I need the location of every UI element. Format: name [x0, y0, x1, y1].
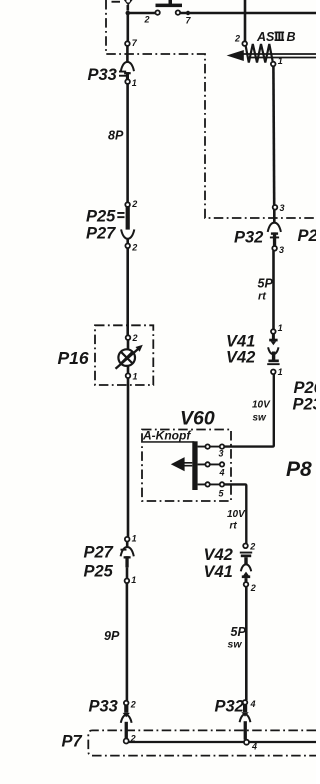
wire bus inside P7 — [129, 741, 316, 743]
svg-text:sw: sw — [228, 639, 243, 651]
wire contact 3 to upper column — [224, 374, 274, 447]
P32 pin — [270, 232, 279, 246]
connector P25 pin 2 — [125, 202, 130, 207]
wire — [272, 66, 275, 205]
P16 dashed box — [95, 325, 153, 385]
svg-text:A-Knopf: A-Knopf — [142, 429, 191, 443]
svg-text:V42: V42 — [204, 546, 233, 564]
wire — [272, 251, 275, 330]
V60 dashed box — [142, 430, 231, 502]
svg-text:1: 1 — [278, 323, 283, 333]
svg-text:4: 4 — [250, 699, 256, 709]
V41 pin — [269, 334, 277, 346]
P32 pin and socket — [241, 705, 248, 717]
svg-text:P26: P26 — [294, 379, 317, 397]
svg-text:B: B — [287, 30, 296, 44]
svg-text:5P: 5P — [231, 625, 247, 639]
wire — [126, 84, 129, 202]
svg-text:P16: P16 — [58, 348, 89, 368]
svg-text:1: 1 — [131, 575, 136, 585]
svg-text:P7: P7 — [62, 733, 83, 751]
wire — [126, 239, 129, 244]
svg-text:P32: P32 — [215, 698, 244, 716]
svg-text:1: 1 — [278, 367, 283, 377]
wire — [127, 340, 130, 349]
P7 dashed box — [88, 730, 316, 755]
wire — [244, 0, 247, 41]
P27 socket cup — [121, 547, 134, 556]
wire — [130, 12, 156, 15]
P32 socket cup — [268, 223, 281, 232]
svg-text:5P: 5P — [258, 277, 274, 291]
P33 pin and socket — [123, 705, 130, 717]
V42 plug — [240, 552, 252, 566]
node junction 2 — [126, 11, 131, 16]
svg-text:2: 2 — [132, 333, 138, 343]
pin 2 — [244, 582, 249, 587]
svg-text:8P: 8P — [108, 129, 124, 143]
svg-text:2: 2 — [131, 243, 137, 253]
wire pin into P7 — [125, 722, 128, 739]
svg-text:2: 2 — [250, 583, 256, 593]
svg-text:4: 4 — [251, 742, 257, 752]
P33 pin — [124, 72, 131, 80]
connector P27 pin 2 — [125, 244, 130, 249]
svg-text:9P: 9P — [104, 629, 120, 643]
connector P27 lower, pin 1 — [125, 537, 130, 542]
P33 socket cup — [121, 62, 134, 71]
svg-text:5: 5 — [219, 489, 225, 499]
svg-text:rt: rt — [230, 521, 238, 532]
svg-text:1: 1 — [278, 56, 283, 66]
pin 1 — [271, 329, 276, 334]
wire — [127, 366, 130, 537]
pin 2 — [126, 335, 131, 340]
pin connector entering from top edge — [112, 0, 133, 6]
wire — [127, 5, 130, 11]
wire pin into P7 — [244, 721, 247, 740]
svg-text:P33: P33 — [88, 66, 117, 84]
V41 socket cup — [241, 564, 251, 571]
wire — [273, 210, 276, 224]
svg-text:1: 1 — [133, 372, 138, 382]
wire — [180, 12, 316, 15]
svg-text:2: 2 — [131, 199, 137, 209]
connector P33 upper, pin 7 — [125, 41, 130, 46]
pin 1 — [125, 579, 130, 584]
wire — [127, 15, 130, 41]
label AS III B — [256, 30, 296, 44]
svg-text:3: 3 — [280, 203, 285, 213]
switch push-button bridge — [156, 0, 183, 7]
svg-text:3: 3 — [279, 245, 284, 255]
svg-text:P33: P33 — [89, 698, 118, 716]
pin 3 — [273, 205, 278, 210]
svg-text:4: 4 — [219, 468, 225, 478]
svg-text:10V: 10V — [252, 400, 271, 411]
contact 4 — [198, 462, 225, 477]
svg-text:P27: P27 — [86, 225, 116, 243]
V41 pin — [242, 572, 250, 583]
svg-text:V41: V41 — [204, 563, 233, 581]
connector V42 lower, pin 2 — [243, 544, 248, 549]
V60 arrow — [184, 463, 193, 466]
wire — [126, 567, 129, 578]
V42 socket cup — [268, 347, 278, 354]
svg-text:7: 7 — [132, 38, 138, 48]
svg-text:2: 2 — [130, 700, 136, 710]
node junction 7 — [186, 11, 190, 15]
svg-text:P25: P25 — [86, 208, 116, 226]
wire lower right column — [245, 587, 248, 700]
contact 3 — [198, 444, 225, 458]
resistor sender AS III B — [227, 34, 316, 67]
svg-text:3: 3 — [219, 449, 224, 459]
lamp arrow — [116, 349, 139, 369]
svg-text:AS: AS — [256, 30, 275, 44]
pin 7 — [176, 10, 180, 14]
node 4 on P7 — [244, 740, 249, 745]
connector V42 upper, pin 1 — [271, 370, 276, 375]
svg-text:7: 7 — [186, 16, 192, 26]
wire — [126, 583, 129, 701]
wire — [126, 542, 129, 549]
pin 1 — [126, 373, 131, 378]
contact 5 — [198, 482, 225, 498]
svg-text:2: 2 — [144, 15, 150, 25]
V60 actuator bar — [192, 441, 197, 490]
wire — [126, 248, 129, 335]
svg-text:V41: V41 — [226, 333, 255, 351]
svg-text:V42: V42 — [226, 349, 255, 367]
lamp P16 — [118, 349, 135, 366]
P25 pin — [126, 207, 130, 230]
svg-text:2: 2 — [249, 542, 255, 552]
svg-text:P8: P8 — [286, 458, 312, 481]
svg-text:P25: P25 — [84, 563, 114, 581]
pin 1 — [125, 79, 130, 84]
svg-text:sw: sw — [253, 413, 268, 424]
boundary dash-dot border top-left — [106, 0, 316, 218]
pin 2 — [155, 10, 159, 14]
svg-text:2: 2 — [234, 34, 240, 44]
svg-text:P27: P27 — [84, 544, 114, 562]
wire — [126, 46, 129, 63]
wire from V60 contact 5 — [224, 484, 246, 543]
svg-text:1: 1 — [132, 78, 137, 88]
svg-text:rt: rt — [258, 291, 267, 303]
svg-text:10V: 10V — [227, 509, 246, 520]
connector P32 upper, pin 3 — [272, 246, 277, 251]
connector P33 lower, pin 2 — [124, 701, 129, 706]
svg-text:V60: V60 — [180, 408, 215, 430]
svg-text:P32: P32 — [234, 229, 263, 247]
svg-text:P26: P26 — [298, 227, 317, 245]
V42 plug — [267, 352, 279, 366]
node 2 on P7 — [124, 739, 129, 744]
svg-text:P23: P23 — [293, 396, 317, 414]
svg-text:1: 1 — [132, 534, 137, 544]
P27 socket cup — [121, 229, 134, 238]
connector P32 lower, pin 4 — [243, 700, 248, 705]
P25 pin — [124, 556, 131, 567]
